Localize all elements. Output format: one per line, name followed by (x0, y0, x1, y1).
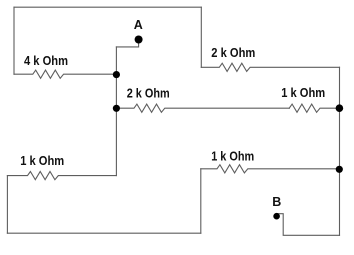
resistor 2 k Ohm (top right) (201, 63, 339, 71)
junction dot (bottom-middle wire right) (336, 166, 343, 173)
svg-text:A: A (134, 18, 143, 32)
wire top (14, 6, 201, 8)
wire middle vertical (115, 47, 117, 176)
svg-text:2 k Ohm: 2 k Ohm (211, 45, 255, 60)
wire top-right vertical (200, 7, 202, 67)
resistor 4 k Ohm (top left) (14, 70, 116, 78)
wire bottom-left vertical (6, 176, 8, 234)
junction dot (middle wire right) (336, 104, 344, 112)
junction dot (4k to middle vertical) (113, 71, 120, 78)
resistor 1 k Ohm (bottom left) (7, 172, 116, 180)
resistor 2 k Ohm (middle) (116, 104, 289, 112)
wire bottom-middle vertical (200, 169, 202, 233)
junction dot (middle wire left) (113, 105, 120, 112)
resistor 1 k Ohm (bottom middle) (201, 165, 340, 173)
wire node A stem (116, 40, 138, 47)
svg-text:2 k Ohm: 2 k Ohm (127, 85, 170, 100)
svg-text:4 k Ohm: 4 k Ohm (24, 53, 68, 68)
svg-text:1 k Ohm: 1 k Ohm (20, 153, 64, 168)
wire right vertical (339, 67, 341, 235)
node B terminal dot (273, 213, 280, 220)
wire left (13, 7, 15, 74)
wire bottom (7, 232, 200, 234)
svg-text:1 k Ohm: 1 k Ohm (211, 148, 254, 163)
svg-text:B: B (272, 195, 281, 209)
wire node B stub (277, 214, 340, 236)
resistor 1 k Ohm (middle right) (289, 104, 339, 112)
svg-text:1 k Ohm: 1 k Ohm (281, 85, 325, 100)
node A terminal dot (135, 36, 143, 44)
